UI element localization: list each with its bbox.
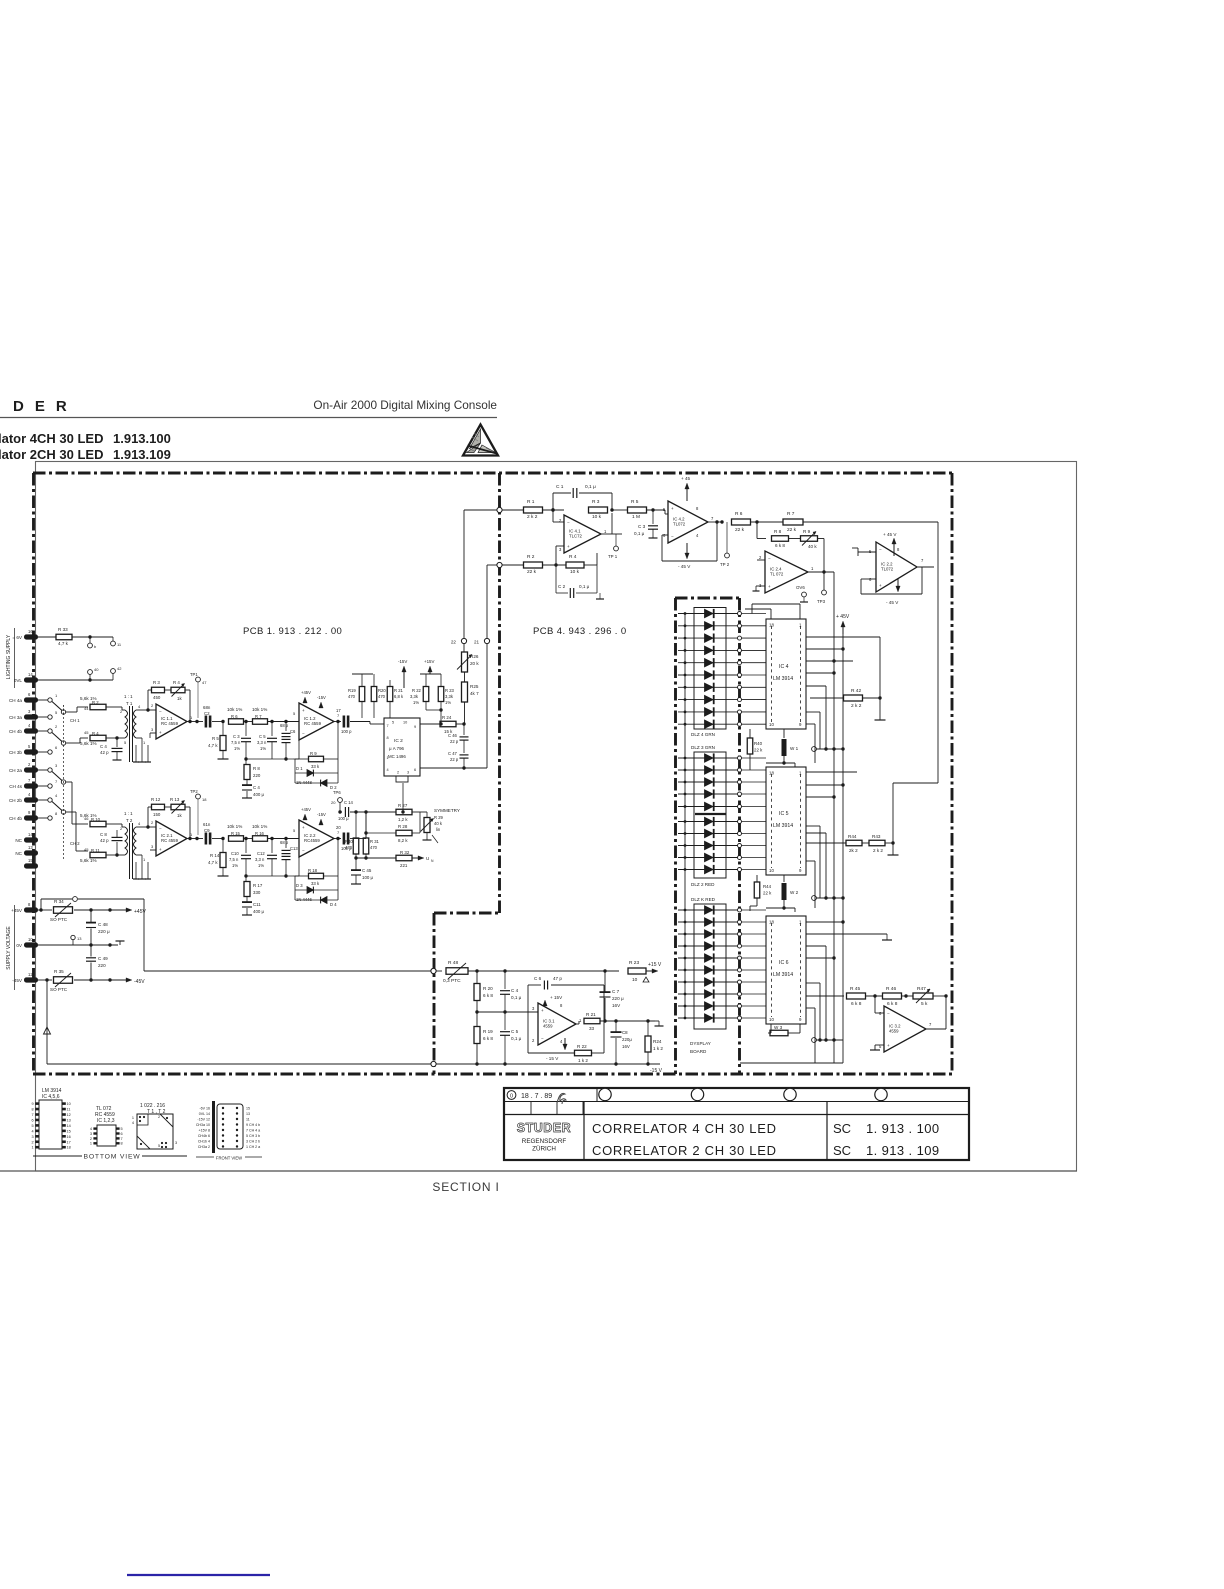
svg-text:4,7 k: 4,7 k	[208, 743, 218, 748]
svg-text:8: 8	[387, 736, 389, 740]
svg-text:+: +	[567, 544, 570, 549]
svg-text:6 k 8: 6 k 8	[851, 1001, 862, 1007]
svg-text:D 1: D 1	[296, 766, 303, 771]
svg-text:R 5: R 5	[212, 736, 219, 741]
svg-text:SC: SC	[833, 1121, 851, 1136]
svg-text:1.913.100: 1.913.100	[113, 431, 171, 446]
svg-text:R 9: R 9	[310, 751, 317, 756]
svg-text:−: −	[768, 556, 771, 561]
svg-text:10: 10	[28, 937, 33, 942]
svg-text:TP 1: TP 1	[608, 554, 618, 559]
svg-text:CH 3a: CH 3a	[9, 715, 22, 720]
svg-text:R 23: R 23	[445, 688, 455, 693]
svg-text:1%: 1%	[260, 746, 266, 751]
svg-text:6 k 8: 6 k 8	[483, 993, 493, 998]
svg-text:C 3: C 3	[233, 734, 240, 739]
svg-text:15: 15	[246, 1107, 250, 1111]
svg-text:IC 2: IC 2	[394, 738, 403, 744]
svg-text:CORRELATOR 4 CH 30 LED: CORRELATOR 4 CH 30 LED	[592, 1121, 777, 1136]
svg-text:D 3: D 3	[296, 883, 303, 888]
svg-text:−: −	[302, 731, 305, 736]
svg-text:8,2 k: 8,2 k	[398, 838, 408, 843]
svg-text:6: 6	[31, 1118, 33, 1122]
svg-text:16: 16	[67, 1135, 71, 1139]
svg-text:18 . 7 . 89: 18 . 7 . 89	[521, 1093, 552, 1100]
svg-text:0,1 μ: 0,1 μ	[634, 531, 645, 536]
svg-text:14: 14	[28, 832, 33, 837]
svg-text:40 k: 40 k	[808, 544, 817, 549]
svg-text:R 6: R 6	[735, 511, 743, 517]
svg-text:IC 6: IC 6	[779, 960, 789, 966]
svg-text:CH 1: CH 1	[70, 718, 80, 723]
svg-text:C 5: C 5	[259, 734, 266, 739]
svg-text:TP 2: TP 2	[720, 562, 730, 567]
svg-text:-45V: -45V	[134, 979, 145, 985]
svg-text:14: 14	[28, 672, 33, 677]
svg-text:61n: 61n	[203, 822, 211, 827]
svg-text:2 k 2: 2 k 2	[851, 703, 862, 709]
svg-text:0,1 μ: 0,1 μ	[511, 995, 522, 1000]
svg-text:OV6: OV6	[796, 585, 805, 590]
svg-text:3: 3	[175, 1141, 177, 1145]
svg-text:1.913.109: 1.913.109	[113, 447, 171, 462]
svg-text:DLZ K RED: DLZ K RED	[691, 897, 716, 902]
svg-text:0VL 14: 0VL 14	[199, 1112, 210, 1116]
svg-text:15: 15	[67, 1129, 71, 1133]
svg-text:DYSPLAY: DYSPLAY	[690, 1041, 711, 1046]
svg-text:C10: C10	[231, 851, 239, 856]
svg-text:TL072: TL072	[881, 567, 894, 572]
svg-text:5 CH 3 b: 5 CH 3 b	[246, 1134, 260, 1138]
svg-text:R 21: R 21	[394, 688, 404, 693]
svg-text:C 49: C 49	[98, 956, 108, 961]
svg-text:SECTION I: SECTION I	[432, 1180, 499, 1194]
svg-text:R 3: R 3	[592, 499, 600, 505]
svg-text:10: 10	[403, 721, 407, 725]
svg-text:CH 4b: CH 4b	[9, 729, 22, 734]
svg-text:DLZ 3 GRN: DLZ 3 GRN	[691, 745, 715, 750]
svg-text:+: +	[887, 1043, 890, 1048]
svg-text:7: 7	[121, 1137, 123, 1141]
svg-text:CH 2b: CH 2b	[9, 798, 22, 803]
svg-text:- 45 V: - 45 V	[678, 564, 691, 569]
svg-text:1: 1	[132, 1116, 134, 1120]
svg-text:2k 2: 2k 2	[849, 848, 858, 853]
svg-text:21: 21	[474, 640, 480, 645]
svg-text:4559: 4559	[889, 1029, 899, 1034]
svg-text:22 k: 22 k	[787, 527, 797, 533]
svg-text:CH 3b: CH 3b	[9, 750, 22, 755]
svg-text:18: 18	[67, 1146, 71, 1150]
svg-text:1k: 1k	[177, 696, 182, 701]
svg-text:SYMMETRY: SYMMETRY	[434, 808, 460, 813]
svg-text:+15 V: +15 V	[648, 962, 662, 968]
svg-text:C 14: C 14	[344, 800, 354, 805]
svg-text:R 10: R 10	[91, 817, 101, 822]
svg-text:2: 2	[31, 1140, 33, 1144]
svg-text:C 7: C 7	[612, 989, 620, 994]
svg-text:μ A 796: μ A 796	[389, 746, 405, 751]
svg-text:R 7: R 7	[787, 511, 795, 517]
svg-text:−: −	[887, 1011, 890, 1016]
svg-text:22 k: 22 k	[763, 891, 772, 896]
svg-text:2 k 2: 2 k 2	[527, 514, 538, 520]
svg-text:W 1: W 1	[790, 746, 799, 751]
svg-text:1 : 1: 1 : 1	[124, 811, 133, 816]
svg-text:6 k 8: 6 k 8	[775, 543, 785, 548]
svg-text:R 2: R 2	[92, 700, 99, 705]
svg-text:2: 2	[158, 1115, 160, 1119]
svg-text:−: −	[159, 826, 162, 831]
svg-text:−: −	[159, 709, 162, 714]
svg-text:TP1: TP1	[190, 672, 198, 677]
svg-text:R20: R20	[378, 688, 386, 693]
svg-text:220: 220	[253, 773, 261, 778]
svg-text:LM 3914: LM 3914	[773, 676, 793, 682]
svg-text:10k 1%: 10k 1%	[227, 824, 242, 829]
svg-text:C 1: C 1	[556, 484, 564, 490]
svg-text:42 p: 42 p	[100, 838, 109, 843]
svg-text:W 2: W 2	[790, 890, 799, 895]
svg-text:10: 10	[769, 722, 774, 727]
svg-text:R40: R40	[754, 741, 763, 746]
svg-text:C8: C8	[622, 1030, 628, 1035]
svg-text:W 3: W 3	[774, 1025, 783, 1030]
svg-text:R 33: R 33	[58, 627, 68, 632]
svg-text:3,3 n: 3,3 n	[257, 740, 267, 745]
svg-text:R 8: R 8	[253, 766, 260, 771]
svg-text:16V: 16V	[612, 1003, 621, 1008]
svg-text:5: 5	[31, 1124, 33, 1128]
svg-text:R 2: R 2	[527, 554, 535, 560]
svg-text:220μ: 220μ	[622, 1037, 632, 1042]
svg-text:- 45 V: - 45 V	[886, 600, 899, 605]
svg-text:45: 45	[84, 847, 89, 852]
svg-text:−: −	[567, 520, 570, 525]
svg-text:CH 4a: CH 4a	[9, 698, 22, 703]
svg-text:R 22: R 22	[577, 1044, 587, 1049]
svg-text:C12: C12	[257, 851, 265, 856]
svg-text:R43: R43	[872, 834, 881, 839]
svg-text:+: +	[671, 506, 674, 511]
svg-text:68 p: 68 p	[280, 840, 289, 845]
svg-text:470: 470	[378, 694, 386, 699]
svg-text:18: 18	[202, 797, 207, 802]
svg-text:1: 1	[387, 756, 389, 760]
svg-text:R 29: R 29	[434, 815, 444, 820]
svg-text:TP2: TP2	[190, 789, 198, 794]
svg-text:17: 17	[67, 1140, 71, 1144]
svg-text:DLZ 4 GRN: DLZ 4 GRN	[691, 732, 715, 737]
svg-text:−: −	[541, 1036, 544, 1041]
svg-text:7,5 n: 7,5 n	[231, 740, 241, 745]
svg-text:46: 46	[84, 816, 89, 821]
svg-text:+: +	[159, 847, 162, 852]
svg-text:−: −	[879, 547, 882, 552]
svg-text:470: 470	[348, 694, 356, 699]
svg-text:CH 4b: CH 4b	[9, 816, 22, 821]
svg-text:1%: 1%	[258, 863, 264, 868]
svg-text:0,1 μ: 0,1 μ	[511, 1036, 522, 1041]
svg-text:LM 3914: LM 3914	[773, 823, 793, 829]
svg-text:NC: NC	[15, 838, 22, 843]
svg-text:R 17: R 17	[253, 883, 263, 888]
svg-text:R44: R44	[848, 834, 857, 839]
svg-text:+45V: +45V	[301, 690, 311, 695]
svg-text:9: 9	[31, 1102, 33, 1106]
svg-text:DER: DER	[13, 398, 78, 415]
svg-text:R 35: R 35	[54, 969, 64, 974]
svg-text:R 14: R 14	[210, 853, 220, 858]
svg-text:REGENSDORF: REGENSDORF	[522, 1138, 567, 1145]
svg-text:R 9: R 9	[803, 529, 811, 534]
svg-text:100 p: 100 p	[341, 729, 352, 734]
svg-text:CH 2: CH 2	[70, 841, 80, 846]
svg-text:4,7 k: 4,7 k	[58, 641, 69, 646]
svg-text:3,3k: 3,3k	[410, 694, 419, 699]
svg-text:330: 330	[253, 890, 261, 895]
svg-text:-15V: -15V	[398, 659, 407, 664]
svg-text:40 k: 40 k	[434, 821, 443, 826]
svg-text:RC 4559: RC 4559	[304, 721, 322, 726]
svg-text:lator 2CH 30 LED: lator 2CH 30 LED	[0, 447, 103, 462]
svg-text:C 8: C 8	[100, 832, 107, 837]
svg-text:20: 20	[331, 800, 336, 805]
svg-text:On-Air 2000 Digital Mixing Con: On-Air 2000 Digital Mixing Console	[313, 398, 497, 412]
svg-text:+ 45 V: + 45 V	[883, 532, 897, 537]
svg-text:16: 16	[28, 629, 33, 634]
svg-text:22 p: 22 p	[450, 739, 459, 744]
svg-text:5,6k 1%: 5,6k 1%	[80, 741, 97, 746]
svg-text:MC 1496: MC 1496	[388, 754, 406, 759]
svg-text:2: 2	[90, 1137, 92, 1141]
svg-text:220: 220	[98, 963, 106, 968]
svg-text:17: 17	[336, 708, 341, 713]
svg-text:- 15 V: - 15 V	[546, 1056, 559, 1061]
svg-text:0,1 μ: 0,1 μ	[585, 484, 596, 490]
svg-text:R 7: R 7	[255, 714, 262, 719]
svg-text:6 k 8: 6 k 8	[483, 1036, 493, 1041]
svg-text:20 k: 20 k	[470, 661, 479, 666]
svg-text:R 11: R 11	[91, 848, 100, 853]
svg-text:RC 4559: RC 4559	[161, 838, 179, 843]
svg-text:33 k: 33 k	[311, 881, 320, 886]
svg-text:8: 8	[31, 1108, 33, 1112]
svg-text:CH3a 10: CH3a 10	[196, 1123, 210, 1127]
svg-text:CORRELATOR 2 CH 30 LED: CORRELATOR 2 CH 30 LED	[592, 1143, 777, 1158]
svg-text:DLZ 2 RED: DLZ 2 RED	[691, 882, 715, 887]
svg-text:10k 1%: 10k 1%	[227, 707, 242, 712]
svg-text:4: 4	[31, 1129, 33, 1133]
svg-text:C 4: C 4	[253, 785, 260, 790]
svg-text:1%: 1%	[413, 700, 419, 705]
svg-text:10k 1%: 10k 1%	[252, 707, 267, 712]
svg-text:R 4: R 4	[173, 680, 180, 685]
svg-text:450: 450	[153, 695, 161, 700]
svg-text:CH1b 4: CH1b 4	[198, 1140, 210, 1144]
svg-text:1: 1	[31, 1146, 33, 1150]
svg-text:−: −	[302, 848, 305, 853]
svg-text:D 4: D 4	[330, 902, 337, 907]
svg-text:5: 5	[392, 721, 394, 725]
svg-text:13: 13	[77, 936, 82, 941]
svg-text:7 CH 4 a: 7 CH 4 a	[246, 1129, 260, 1133]
svg-text:2: 2	[397, 771, 399, 775]
svg-text:6: 6	[414, 768, 416, 772]
svg-text:6,8 k: 6,8 k	[394, 694, 404, 699]
svg-text:5,6k 1%: 5,6k 1%	[80, 858, 97, 863]
svg-text:22: 22	[451, 640, 457, 645]
svg-text:10: 10	[769, 1017, 774, 1022]
svg-text:3 CH 2 b: 3 CH 2 b	[246, 1140, 260, 1144]
svg-text:+45V: +45V	[301, 807, 311, 812]
svg-text:−: −	[671, 534, 674, 539]
svg-text:4559: 4559	[543, 1024, 553, 1029]
svg-text:C 45: C 45	[362, 868, 372, 873]
svg-text:221: 221	[400, 863, 408, 868]
svg-text:+ 15V: + 15V	[550, 995, 563, 1000]
svg-text:C6: C6	[290, 729, 296, 734]
svg-text:18: 18	[769, 920, 774, 925]
svg-text:TP3: TP3	[817, 599, 826, 604]
svg-text:9: 9	[414, 725, 416, 729]
svg-text:1. 913 . 109: 1. 913 . 109	[866, 1143, 939, 1158]
svg-text:1k: 1k	[177, 813, 182, 818]
svg-text:42: 42	[117, 666, 122, 671]
svg-text:1N 4448: 1N 4448	[296, 780, 313, 785]
svg-text:C 6: C 6	[534, 976, 542, 981]
svg-text:R 19: R 19	[483, 1029, 493, 1034]
svg-text:LM 3914: LM 3914	[773, 972, 793, 978]
svg-text:1%: 1%	[232, 863, 238, 868]
svg-text:10: 10	[632, 977, 638, 983]
svg-text:TL 072: TL 072	[770, 572, 784, 577]
svg-text:R 21: R 21	[586, 1012, 596, 1017]
svg-text:13: 13	[28, 845, 33, 850]
svg-text:-15 V: -15 V	[650, 1068, 663, 1074]
svg-text:4,7 k: 4,7 k	[208, 860, 218, 865]
svg-text:R 16: R 16	[255, 831, 265, 836]
svg-text:U: U	[426, 856, 429, 861]
svg-text:10 k: 10 k	[570, 569, 580, 575]
svg-text:3: 3	[407, 771, 409, 775]
svg-text:1: 1	[90, 1142, 92, 1146]
svg-text:R 18: R 18	[308, 868, 318, 873]
svg-text:R 23: R 23	[629, 960, 639, 966]
svg-text:CH 4s: CH 4s	[9, 784, 22, 789]
svg-text:R 4: R 4	[569, 554, 577, 560]
svg-text:1. 913 . 100: 1. 913 . 100	[866, 1121, 939, 1136]
svg-text:42 p: 42 p	[100, 750, 109, 755]
svg-text:+: +	[768, 584, 771, 589]
svg-text:T 1: T 1	[126, 701, 133, 706]
svg-text:2 k 2: 2 k 2	[873, 848, 883, 853]
svg-text:CH3a 2: CH3a 2	[198, 1145, 210, 1149]
svg-text:68n: 68n	[203, 705, 211, 710]
svg-text:R 48: R 48	[448, 960, 458, 966]
svg-text:+45V: +45V	[134, 909, 146, 915]
svg-text:IC 4,5,6: IC 4,5,6	[42, 1094, 60, 1100]
svg-text:5: 5	[158, 1144, 160, 1148]
svg-text:R 34: R 34	[54, 899, 64, 904]
svg-text:1N 4446: 1N 4446	[296, 897, 313, 902]
svg-text:470: 470	[370, 845, 378, 850]
svg-text:9 CH 4 b: 9 CH 4 b	[246, 1123, 260, 1127]
svg-text:4: 4	[387, 768, 389, 772]
svg-text:16V: 16V	[622, 1044, 630, 1049]
svg-text:C 4: C 4	[511, 988, 519, 993]
svg-text:10: 10	[67, 1102, 71, 1106]
svg-text:IC 4: IC 4	[779, 664, 789, 670]
svg-text:C 47: C 47	[448, 751, 458, 756]
svg-text:33: 33	[589, 1026, 595, 1031]
svg-text:0,1 μ: 0,1 μ	[579, 584, 590, 589]
svg-text:PCB 1. 913 . 212 . 00: PCB 1. 913 . 212 . 00	[243, 626, 342, 637]
svg-text:lator 4CH 30 LED: lator 4CH 30 LED	[0, 431, 103, 446]
svg-text:+45V: +45V	[11, 908, 23, 913]
svg-text:3,3k: 3,3k	[445, 694, 454, 699]
svg-text:SUPPLY VOLTAGE: SUPPLY VOLTAGE	[6, 926, 12, 970]
svg-text:C 3: C 3	[638, 524, 646, 529]
svg-text:R30: R30	[345, 839, 353, 844]
svg-text:+: +	[879, 583, 882, 588]
svg-text:C 2: C 2	[558, 584, 566, 589]
svg-text:3: 3	[90, 1132, 92, 1136]
svg-text:R 15: R 15	[231, 831, 241, 836]
svg-text:+: +	[302, 825, 305, 830]
svg-text:+ 45V: + 45V	[836, 614, 850, 620]
svg-text:+: +	[302, 708, 305, 713]
svg-text:10k 1%: 10k 1%	[252, 824, 267, 829]
svg-text:6: 6	[121, 1132, 123, 1136]
svg-text:10 k: 10 k	[592, 514, 602, 520]
svg-text:lin: lin	[436, 827, 441, 832]
svg-text:22 k: 22 k	[527, 569, 537, 575]
svg-text:PCB 4. 943 . 296 . 0: PCB 4. 943 . 296 . 0	[533, 626, 627, 637]
svg-text:FRONT VIEW: FRONT VIEW	[216, 1156, 242, 1161]
svg-text:R 12: R 12	[151, 797, 161, 802]
svg-text:-15V: -15V	[317, 812, 326, 817]
svg-text:0,3 PTC: 0,3 PTC	[443, 978, 461, 984]
svg-text:150: 150	[153, 812, 161, 817]
svg-text:12: 12	[67, 1113, 71, 1117]
svg-text:R44: R44	[763, 884, 772, 889]
svg-text:-6V 16: -6V 16	[199, 1107, 210, 1111]
svg-text:R 4: R 4	[92, 731, 99, 736]
svg-text:220 μ: 220 μ	[612, 996, 624, 1001]
svg-text:+ 45: + 45	[681, 476, 691, 481]
svg-text:T 2: T 2	[126, 818, 133, 823]
svg-text:33 k: 33 k	[311, 764, 320, 769]
svg-text:STUDER: STUDER	[517, 1121, 571, 1135]
svg-text:1 CH 2 a: 1 CH 2 a	[246, 1145, 260, 1149]
svg-text:R 22: R 22	[412, 688, 422, 693]
svg-text:400 μ: 400 μ	[253, 909, 265, 914]
svg-text:3: 3	[31, 1135, 33, 1139]
svg-text:LIGHTING SUPPLY: LIGHTING SUPPLY	[6, 634, 12, 679]
svg-text:7,5 n: 7,5 n	[229, 857, 239, 862]
svg-text:4k 7: 4k 7	[470, 691, 479, 696]
svg-text:22 p: 22 p	[450, 757, 459, 762]
svg-text:1 k 2: 1 k 2	[653, 1046, 663, 1051]
svg-text:R26: R26	[470, 654, 479, 659]
svg-text:TLC72: TLC72	[569, 534, 583, 539]
svg-text:4: 4	[132, 1121, 134, 1125]
svg-text:1%: 1%	[234, 746, 240, 751]
svg-text:15: 15	[28, 858, 33, 863]
svg-text:45: 45	[84, 730, 89, 735]
svg-text:C 4: C 4	[100, 744, 107, 749]
